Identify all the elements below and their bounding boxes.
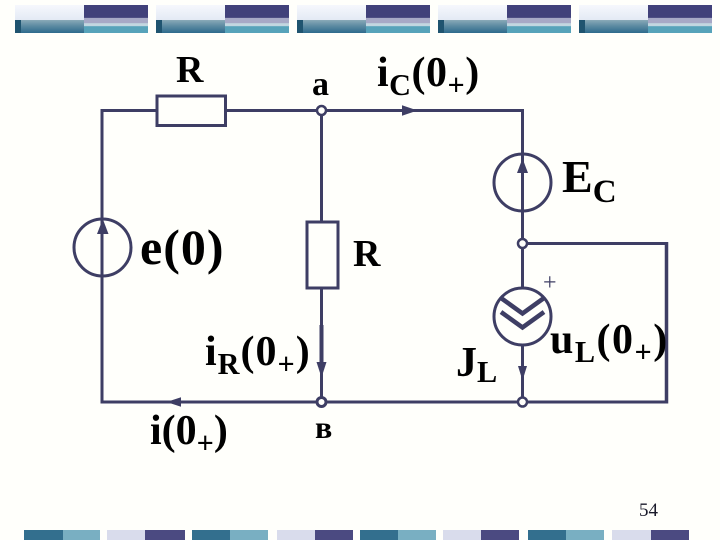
node below E_C	[518, 239, 527, 248]
resistor R (top)	[157, 96, 226, 126]
label + polarity	[543, 271, 557, 295]
arrow i(0+) left on bottom wire	[167, 397, 182, 407]
node a	[317, 106, 326, 115]
label i_R(0+)	[205, 331, 311, 373]
label node b	[315, 411, 332, 443]
label i_C(0+)	[377, 52, 480, 94]
label J_L	[456, 342, 497, 384]
wire right branch	[521, 109, 524, 402]
label node a	[312, 68, 329, 102]
source E_C circle	[494, 154, 551, 211]
wire left	[101, 109, 104, 404]
node bottom right	[518, 398, 527, 407]
arrow J_L down	[518, 366, 527, 381]
J_L chevron 2	[501, 312, 544, 328]
resistor R (middle)	[307, 222, 338, 288]
current source J_L circle	[494, 288, 551, 345]
wire right vertical	[665, 242, 669, 404]
label E_C	[562, 154, 617, 200]
J_L chevron 1	[501, 298, 544, 314]
arrow i_R down on middle branch	[320, 325, 324, 363]
e(0) arrowhead	[97, 219, 109, 234]
wire middle branch a-to-b	[320, 111, 323, 403]
decorative bottom bar	[24, 530, 63, 540]
wire node-to-right	[523, 242, 669, 245]
label e(0)	[140, 222, 225, 272]
source e(0) circle	[74, 219, 131, 276]
page number 54	[639, 500, 658, 522]
arrow i_C on top wire	[402, 105, 418, 115]
label u_L(0+)	[550, 319, 669, 361]
label R (middle resistor)	[353, 235, 380, 273]
label R (top resistor)	[176, 51, 203, 89]
label i(0+)	[150, 410, 228, 452]
node b bottom	[317, 398, 326, 407]
E_C arrowhead	[517, 159, 528, 174]
wire top	[101, 109, 524, 112]
wire bottom	[101, 401, 669, 404]
decorative top tiles	[15, 5, 148, 33]
